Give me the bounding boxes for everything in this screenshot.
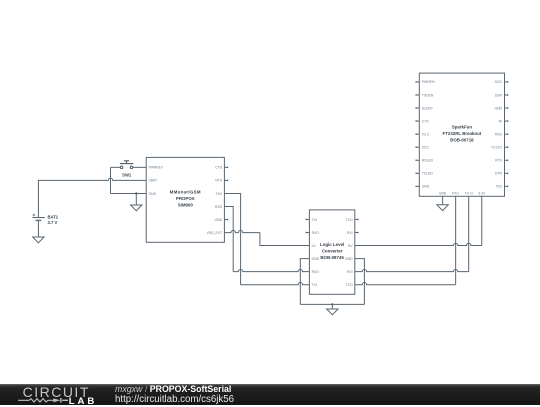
- battery BAT1 3.7 V: [32, 180, 58, 237]
- svg-text:RXD: RXD: [215, 205, 223, 209]
- svg-text:V3.3: V3.3: [422, 132, 429, 136]
- svg-text:DSR: DSR: [495, 93, 503, 97]
- svg-text:BOB-00718: BOB-00718: [450, 138, 474, 143]
- svg-text:TXLED: TXLED: [422, 172, 433, 176]
- svg-text:GND: GND: [215, 218, 223, 222]
- svg-text:GND: GND: [312, 257, 320, 261]
- svg-text:VCCIO: VCCIO: [491, 146, 502, 150]
- svg-text:RX-I: RX-I: [452, 192, 459, 196]
- svg-text:PWREN: PWREN: [422, 80, 435, 84]
- diode (logo): [53, 398, 60, 402]
- wire LLC left GND down to rail: [300, 259, 309, 305]
- svg-text:SparkFun: SparkFun: [452, 124, 473, 129]
- svg-text:PROPOX: PROPOX: [176, 196, 195, 201]
- svg-text:MMunarIGSM: MMunarIGSM: [170, 189, 201, 194]
- svg-text:SLEEP: SLEEP: [422, 106, 434, 110]
- svg-text:VBAT: VBAT: [149, 179, 158, 183]
- wire FT232 GND pin down: [442, 196, 444, 205]
- junction on GND net: [135, 192, 137, 194]
- ground (battery): [33, 237, 44, 243]
- svg-text:TXD: TXD: [215, 192, 222, 196]
- svg-text:BOB-08745: BOB-08745: [320, 255, 344, 260]
- svg-text:TXD: TXD: [495, 185, 502, 189]
- svg-text:3.3V: 3.3V: [478, 192, 486, 196]
- svg-text:RXLED: RXLED: [422, 159, 434, 163]
- svg-text:RXO: RXO: [312, 270, 320, 274]
- svg-text:TX-O: TX-O: [465, 192, 473, 196]
- svg-text:VCC: VCC: [422, 146, 430, 150]
- svg-text:FT232RL Breakout: FT232RL Breakout: [443, 131, 482, 136]
- module U3 SparkFun FT232RL Breakout BOB-00718: [416, 73, 508, 196]
- svg-text:VDD_EXT: VDD_EXT: [206, 231, 222, 235]
- wire GSM RXD to LLC RXO ch2: [224, 207, 233, 272]
- svg-text:TXO: TXO: [346, 283, 353, 287]
- wire GSM VDD_EXT to LLC LV: [224, 230, 260, 232]
- svg-text:RTS: RTS: [215, 179, 222, 183]
- wire LLC TXO to FT232 RX-I: [355, 283, 456, 285]
- ground (FT232 GND): [437, 205, 448, 211]
- svg-text:DCD: DCD: [495, 80, 503, 84]
- wire LLC right GND down to rail: [355, 259, 365, 305]
- svg-text:PWRKEY: PWRKEY: [149, 166, 164, 170]
- svg-text:TXO: TXO: [346, 218, 353, 222]
- svg-text:Converter: Converter: [322, 249, 343, 254]
- wire battery + to GSM VBAT (node 3.7V), hop over SW1 branch: [38, 178, 146, 180]
- svg-text:HV: HV: [348, 244, 353, 248]
- svg-text:BAT1: BAT1: [48, 215, 59, 220]
- wire LLC RXI to FT232 TX-O: [355, 269, 469, 271]
- wire GND net to GSM GND pin: [111, 192, 147, 194]
- ground (LLC GND): [327, 309, 338, 315]
- wire junction to ground: [331, 304, 333, 309]
- module U1 MMunarIGSM PROPOX SIM900: [146, 157, 228, 242]
- wire SW1 left terminal down to GND net: [110, 167, 112, 193]
- svg-text:GND: GND: [345, 257, 353, 261]
- svg-text:RXD: RXD: [495, 132, 503, 136]
- ground (GSM GND): [131, 205, 142, 211]
- wire GND bottom rail: [300, 303, 364, 305]
- CircuitLab logo: [0, 383, 540, 385]
- svg-text:RI: RI: [499, 119, 502, 123]
- svg-text:GND: GND: [494, 106, 502, 110]
- switch SW1 (pushbutton): [111, 161, 147, 178]
- wire LLC HV to FT232 3.3V: [355, 243, 482, 245]
- resistor zigzag (logo): [18, 399, 53, 402]
- svg-text:CTS: CTS: [422, 119, 430, 123]
- svg-text:TXI: TXI: [312, 283, 317, 287]
- svg-text:TXI: TXI: [312, 218, 317, 222]
- module U2 Logic Level Converter BOB-08745: [306, 210, 358, 294]
- junction on GND rail: [331, 303, 333, 305]
- svg-text:SIM900: SIM900: [178, 203, 194, 208]
- svg-text:TXDEN: TXDEN: [422, 93, 434, 97]
- svg-text:RXI: RXI: [347, 231, 353, 235]
- svg-text:GND: GND: [439, 192, 447, 196]
- svg-text:GND: GND: [149, 192, 157, 196]
- svg-text:Logic Level: Logic Level: [320, 242, 344, 247]
- svg-text:RTS: RTS: [495, 159, 502, 163]
- svg-text:GND: GND: [422, 185, 430, 189]
- svg-text:RXI: RXI: [347, 270, 353, 274]
- svg-text:3.7 V: 3.7 V: [48, 220, 58, 225]
- svg-text:SW1: SW1: [122, 172, 132, 177]
- svg-text:RXO: RXO: [312, 231, 320, 235]
- svg-text:CTS: CTS: [215, 166, 223, 170]
- wire GSM TXD to LLC TXI ch2: [224, 193, 240, 284]
- wire junction down to ground: [135, 193, 137, 205]
- svg-text:DTR: DTR: [495, 172, 503, 176]
